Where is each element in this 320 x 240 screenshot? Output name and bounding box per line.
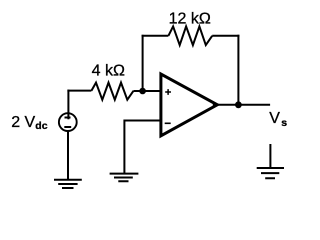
wire resistor to op-amp + input: [134, 90, 161, 92]
wire feedback top-right horizontal: [212, 35, 239, 37]
op-amp - input symbol: [165, 122, 171, 124]
wire op-amp output: [218, 104, 270, 106]
svg-text:4 kΩ: 4 kΩ: [92, 62, 125, 79]
wire feedback left vertical: [142, 35, 144, 91]
resistor R1 4kΩ zigzag: [91, 83, 133, 100]
ground right stem: [269, 144, 271, 168]
ground left: [54, 180, 82, 188]
wire source top horizontal: [67, 90, 91, 92]
ground right: [257, 168, 284, 178]
node junction dot at output: [235, 101, 242, 108]
wire - input vertical to ground: [123, 120, 125, 174]
resistor R2 12kΩ zigzag: [168, 26, 212, 45]
svg-text:s: s: [281, 117, 287, 129]
ground middle: [110, 174, 139, 182]
svg-text:dc: dc: [35, 120, 47, 132]
op-amp apex tip fill: [213, 102, 219, 107]
node junction dot at + input: [139, 88, 146, 95]
wire source bottom vertical: [67, 131, 69, 180]
wire feedback right vertical: [237, 35, 239, 105]
source V1 circle: [59, 113, 77, 131]
source V1 minus mark: [64, 126, 71, 128]
wire source stem into circle: [67, 90, 69, 120]
svg-text:V: V: [269, 110, 280, 127]
svg-text:2 V: 2 V: [11, 114, 35, 131]
source V1 plus mark: [65, 117, 71, 119]
op-amp U1 triangle: [161, 74, 217, 136]
op-amp + input symbol: [165, 89, 171, 95]
wire feedback top-left horizontal: [142, 35, 169, 37]
svg-text:12 kΩ: 12 kΩ: [169, 10, 211, 27]
wire - input horizontal: [124, 120, 160, 122]
